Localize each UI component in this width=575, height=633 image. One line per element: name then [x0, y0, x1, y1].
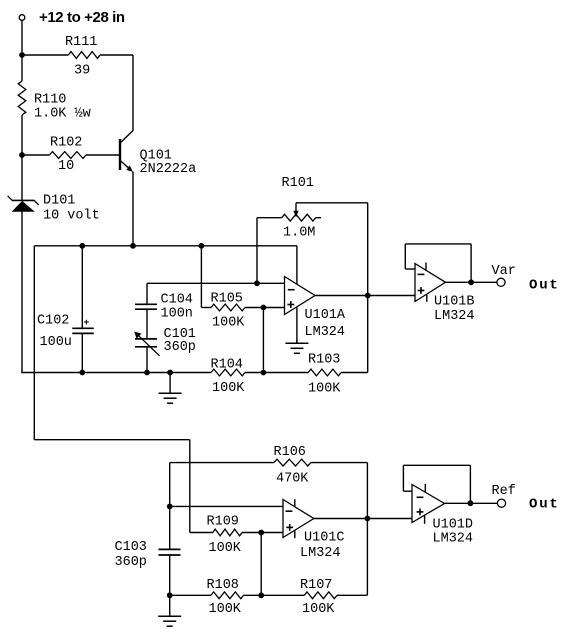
- U101B bottom stub: [426, 294, 428, 302]
- label 39: [74, 64, 90, 79]
- resistor R111: [68, 52, 100, 59]
- svg-text:100K: 100K: [212, 381, 245, 396]
- resistor R107: [304, 592, 337, 599]
- label 10 volt: [43, 209, 100, 224]
- wire output vertical: [367, 203, 369, 373]
- wire U101C output: [314, 518, 412, 520]
- svg-text:360p: 360p: [164, 340, 196, 355]
- svg-text:R109: R109: [207, 515, 239, 530]
- svg-text:R108: R108: [207, 578, 239, 593]
- node output A: [365, 293, 371, 299]
- wire U101B out: [446, 281, 498, 283]
- wire R102 left: [22, 154, 50, 156]
- svg-text:C104: C104: [161, 293, 193, 308]
- svg-text:10 volt: 10 volt: [43, 209, 100, 224]
- op-amp U101B: [415, 264, 446, 302]
- label R109: [207, 515, 239, 530]
- label 1.0M: [283, 226, 315, 241]
- node output C: [365, 516, 371, 522]
- node rail/C101 branch: [144, 370, 150, 376]
- U101D top stub: [424, 484, 426, 492]
- svg-text:D101: D101: [43, 194, 75, 209]
- svg-text:100K: 100K: [209, 602, 242, 617]
- wire lower rail 1: [170, 594, 211, 596]
- svg-text:Out: Out: [529, 497, 560, 513]
- svg-text:R101: R101: [282, 176, 314, 191]
- svg-text:R107: R107: [300, 578, 332, 593]
- svg-text:LM324: LM324: [433, 532, 474, 547]
- U101B top stub: [425, 263, 427, 272]
- wire R109 right: [242, 532, 283, 534]
- svg-text:LM324: LM324: [305, 325, 346, 340]
- resistor R104: [211, 369, 245, 376]
- label C103: [115, 540, 147, 555]
- wire R111 left: [22, 54, 68, 56]
- node output D: [468, 500, 474, 506]
- transistor Q101 emitter: [121, 161, 133, 172]
- label R110: [34, 93, 66, 108]
- label R102: [50, 136, 82, 151]
- svg-text:Out: Out: [529, 278, 560, 294]
- resistor R109: [213, 529, 242, 536]
- wire emitter vertical: [132, 172, 134, 246]
- svg-text:100n: 100n: [161, 307, 193, 322]
- ground symbol U101A: [285, 340, 308, 353]
- label 100K R109: [209, 541, 242, 556]
- wire rail right: [341, 372, 368, 374]
- pot R101 wiper arrow: [293, 203, 298, 217]
- wire U101D feedback right: [469, 465, 471, 503]
- capacitor C102: [72, 317, 94, 333]
- label R108: [207, 578, 239, 593]
- label R104: [211, 358, 243, 373]
- capacitor C103: [159, 549, 181, 555]
- node minus C junction: [167, 504, 173, 510]
- wire lower rail 3: [337, 594, 367, 596]
- label LM324 D: [433, 532, 474, 547]
- input terminal +12..+28: [19, 15, 25, 21]
- terminal Var Out: [497, 278, 505, 286]
- wire R106 to output node: [366, 463, 368, 596]
- label 100n: [161, 307, 193, 322]
- svg-text:470K: 470K: [276, 472, 309, 487]
- U101A V+ pin: [296, 246, 298, 285]
- wire rail mid: [245, 372, 308, 374]
- label C104: [161, 293, 193, 308]
- wire U101B feedback left: [405, 244, 415, 269]
- U101D minus sign: [417, 496, 424, 498]
- svg-text:U101B: U101B: [434, 295, 475, 310]
- svg-text:+12 to +28 in: +12 to +28 in: [39, 9, 125, 26]
- svg-text:100u: 100u: [40, 335, 72, 350]
- label U101A: [305, 308, 346, 323]
- wire R106 corner vertical: [169, 463, 171, 550]
- svg-text:100K: 100K: [209, 541, 242, 556]
- node rail/R105 branch: [261, 370, 267, 376]
- label D101: [43, 194, 75, 209]
- wire 10V bus: [34, 245, 297, 247]
- node output B: [468, 279, 474, 285]
- node bus/R105: [199, 243, 205, 249]
- wire R105 right: [245, 307, 285, 309]
- node lower rail left: [167, 592, 173, 598]
- resistor R108: [211, 592, 244, 599]
- label C101: [164, 327, 196, 342]
- svg-text:C102: C102: [37, 314, 69, 329]
- U101A plus sign: [287, 301, 294, 308]
- label LM324 A: [305, 325, 346, 340]
- label 100K R107: [302, 602, 335, 617]
- svg-text:R104: R104: [211, 358, 243, 373]
- svg-text:R105: R105: [211, 292, 243, 307]
- label 1.0K half-w: [34, 107, 91, 122]
- label +12 to +28 in: [39, 9, 125, 26]
- node rail/ground: [167, 370, 173, 376]
- wire pot-left vertical: [256, 218, 258, 284]
- label R106: [274, 445, 306, 460]
- svg-text:Var: Var: [492, 264, 516, 279]
- node R102 junction: [19, 152, 25, 158]
- wire input vertical: [21, 20, 23, 81]
- wire ground rail: [21, 372, 211, 374]
- resistor R102: [50, 152, 87, 159]
- node lower rail/plusC: [258, 592, 264, 598]
- svg-text:LM324: LM324: [434, 309, 475, 324]
- label U101C: [304, 531, 345, 546]
- U101C minus sign: [286, 510, 293, 512]
- wire lower rail 2: [244, 594, 305, 596]
- label R103: [308, 353, 340, 368]
- ground symbol mid: [159, 373, 182, 404]
- svg-text:R106: R106: [274, 445, 306, 460]
- label 100K R104: [212, 381, 245, 396]
- wire bus left drop to Ref feed: [33, 246, 35, 440]
- wire pot top: [296, 202, 368, 204]
- svg-text:LM324: LM324: [300, 546, 341, 561]
- svg-text:U101D: U101D: [433, 518, 474, 533]
- label 10: [58, 159, 74, 174]
- transistor Q101 collector: [121, 131, 133, 143]
- svg-text:R111: R111: [65, 35, 97, 50]
- resistor R106: [274, 459, 311, 466]
- wire bus to R105: [200, 246, 202, 308]
- U101A minus sign: [288, 289, 295, 291]
- label Q101: [140, 149, 172, 164]
- wire plusC to rail: [260, 533, 262, 596]
- wire C102 top: [81, 246, 83, 328]
- capacitor C101 variable: [134, 332, 159, 356]
- svg-text:100K: 100K: [212, 316, 245, 331]
- label 470K: [276, 472, 309, 487]
- resistor R110: [18, 81, 26, 115]
- wire Ref feed horizontal: [34, 439, 190, 441]
- diode D101 zener: [8, 196, 39, 212]
- wire U101D out: [445, 502, 498, 504]
- svg-text:Ref: Ref: [492, 484, 516, 499]
- U101A V- pin: [296, 307, 298, 343]
- wire C104 top: [146, 283, 148, 304]
- svg-text:U101C: U101C: [304, 531, 345, 546]
- label 100K R108: [209, 602, 242, 617]
- label 360p C103: [115, 555, 147, 570]
- svg-text:R110: R110: [34, 93, 66, 108]
- svg-text:R103: R103: [308, 353, 340, 368]
- label Ref: [492, 484, 516, 499]
- label R107: [300, 578, 332, 593]
- resistor R105: [211, 304, 245, 311]
- U101C bottom stub: [294, 530, 296, 538]
- wire C101 bottom: [146, 347, 148, 373]
- U101C top stub: [294, 499, 296, 507]
- label Out var: [529, 278, 560, 294]
- wire R110 to R102 node: [21, 115, 23, 155]
- transistor Q101 base bar: [119, 139, 121, 170]
- node minus junction: [254, 280, 260, 286]
- wire D101 anode down: [21, 212, 23, 374]
- node bus/emitter: [130, 243, 136, 249]
- label Out ref: [529, 497, 560, 513]
- svg-text:+: +: [84, 317, 90, 328]
- label 100K R103: [308, 382, 341, 397]
- label 360p C101: [164, 340, 196, 355]
- U101B minus sign: [418, 273, 425, 275]
- U101D plus sign: [417, 509, 424, 516]
- node plus C junction: [258, 530, 264, 536]
- potentiometer R101: [257, 214, 321, 221]
- U101D bottom stub: [424, 516, 426, 524]
- wire U101B feedback right: [470, 244, 472, 282]
- label 100K R105: [212, 316, 245, 331]
- svg-text:C103: C103: [115, 540, 147, 555]
- op-amp U101D: [412, 485, 445, 523]
- svg-text:100K: 100K: [302, 602, 335, 617]
- wire Ref feed vertical: [189, 440, 191, 533]
- svg-text:10: 10: [58, 159, 74, 174]
- ground symbol lower: [158, 595, 181, 626]
- wire R109 left: [190, 532, 213, 534]
- U101B plus sign: [418, 287, 425, 294]
- wire C102 bottom: [81, 333, 83, 373]
- node input/R111 junction: [19, 52, 25, 58]
- label U101B: [434, 295, 475, 310]
- wire R105 left stub: [201, 307, 211, 309]
- node bus/C102: [79, 243, 85, 249]
- svg-text:U101A: U101A: [305, 308, 346, 323]
- svg-text:R102: R102: [50, 136, 82, 151]
- svg-text:1.0M: 1.0M: [283, 226, 315, 241]
- label LM324 C: [300, 546, 341, 561]
- label R105: [211, 292, 243, 307]
- capacitor C104: [135, 304, 157, 309]
- label R111: [65, 35, 97, 50]
- wire U101A output: [315, 295, 415, 297]
- label U101D: [433, 518, 474, 533]
- wire R102node to D101: [21, 155, 23, 200]
- wire U101B feedback top: [405, 243, 471, 245]
- U101C plus sign: [286, 524, 293, 531]
- label R101: [282, 176, 314, 191]
- label 100u: [40, 335, 72, 350]
- wire R105node to rail: [262, 308, 264, 373]
- wire C103 bottom: [169, 555, 171, 595]
- svg-text:360p: 360p: [115, 555, 147, 570]
- wire U101D feedback left: [403, 465, 412, 491]
- svg-text:39: 39: [74, 64, 90, 79]
- wire U101C minus line: [170, 505, 283, 507]
- wire R106 right: [311, 462, 368, 464]
- node rail/C102: [79, 370, 85, 376]
- wire U101D feedback top: [403, 464, 470, 466]
- wire R111 right: [100, 54, 133, 56]
- terminal Ref Out: [497, 499, 505, 507]
- resistor R103: [308, 369, 341, 376]
- label Var: [492, 264, 516, 279]
- svg-text:100K: 100K: [308, 382, 341, 397]
- op-amp U101C: [283, 500, 314, 538]
- wire collector vertical: [132, 55, 134, 131]
- label C102: [37, 314, 69, 329]
- node plus junction: [261, 305, 267, 311]
- wire C104-C101: [146, 309, 148, 339]
- svg-text:1.0K ½w: 1.0K ½w: [34, 107, 91, 122]
- wire minus line: [147, 282, 285, 284]
- label 2N2222a: [140, 162, 197, 177]
- wire R102 right to base: [86, 154, 119, 156]
- label LM324 B: [434, 309, 475, 324]
- wire R106 line left: [170, 462, 274, 464]
- op-amp U101A: [285, 277, 316, 315]
- svg-text:2N2222a: 2N2222a: [140, 162, 197, 177]
